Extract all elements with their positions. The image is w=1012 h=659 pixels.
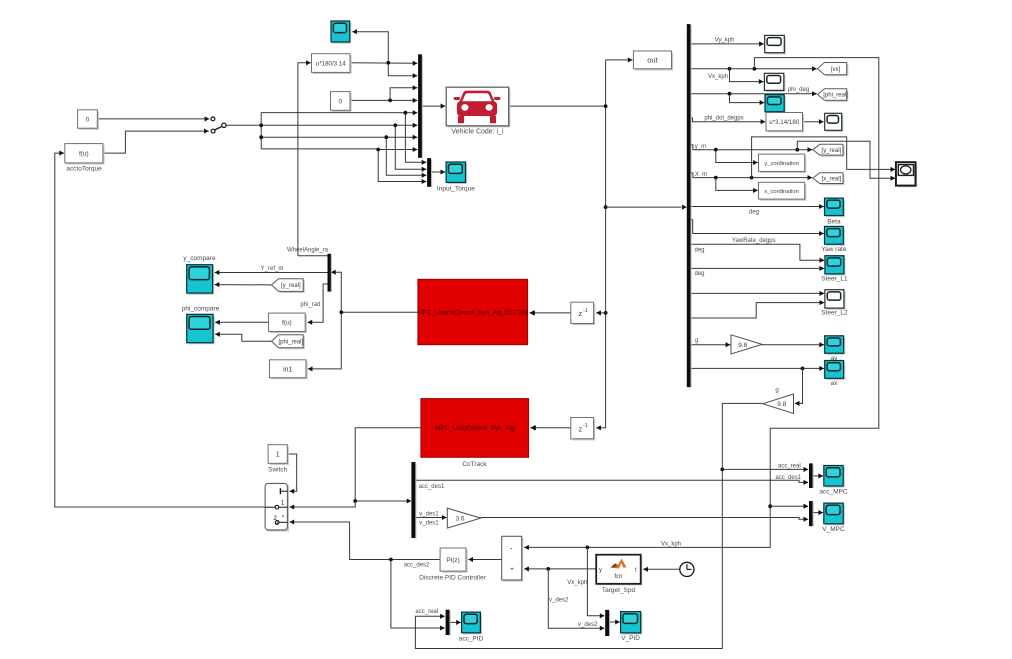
wire vx to scope (730, 69, 764, 84)
wire trunk to out block (606, 57, 633, 62)
wire wheelangle out top (298, 255, 328, 257)
svg-text:z: z (579, 309, 583, 318)
wire row3 (261, 135, 417, 140)
junction accdes2 j (389, 558, 393, 562)
wire phi to scope (730, 94, 765, 105)
svg-text:V_PID: V_PID (621, 635, 640, 642)
junction ym j1 (714, 148, 718, 152)
wire vx feedback long (590, 58, 879, 548)
subsystem MPC_LongControl_Dyn_Alg (CoTrack) (421, 399, 529, 458)
junction ax j (801, 367, 805, 371)
wire piz out (290, 519, 441, 559)
wire red1 junction down (308, 312, 342, 371)
mux V_PID (605, 610, 610, 637)
wire trunk vertical (596, 60, 605, 430)
wire deg beta (691, 204, 824, 209)
svg-text:v_des1: v_des1 (419, 521, 439, 527)
wire Yrefm line (215, 270, 328, 275)
scope V_MPC (824, 503, 845, 525)
svg-text:0: 0 (86, 116, 90, 123)
svg-text:Vy_kph: Vy_kph (715, 37, 735, 43)
goto tag [y_real] (813, 144, 845, 156)
wire gain3 out (481, 517, 809, 522)
svg-text:phi_deg: phi_deg (788, 87, 809, 93)
svg-text:deg: deg (695, 247, 705, 253)
svg-text:[y_real]: [y_real] (822, 148, 842, 154)
wire const1 to mps (287, 454, 296, 494)
goto tag [vx] (818, 63, 849, 77)
svg-text:x_cordination: x_cordination (764, 189, 798, 195)
wire red2 out (355, 428, 421, 501)
wire row3 to IT mux (386, 137, 426, 178)
junction trunk t1 (604, 104, 608, 108)
mux M1 (vehicle inputs) (418, 54, 423, 158)
wire fu2 out (215, 320, 268, 325)
wire steer2b (691, 300, 825, 318)
wire ax to gain2 (795, 368, 803, 406)
junction vmpc tap (768, 504, 772, 508)
svg-text:u*3.14/180: u*3.14/180 (769, 119, 799, 126)
wire sum out (468, 557, 501, 562)
svg-text:Y_ref_m: Y_ref_m (261, 266, 284, 272)
junction red1 j (339, 310, 343, 314)
svg-text:Vx_kph: Vx_kph (661, 541, 681, 547)
wire vdes1 (415, 515, 446, 520)
wire xm to xcord (716, 178, 758, 193)
junction d1 (404, 111, 408, 115)
svg-text:X_m: X_m (695, 172, 707, 178)
svg-text:WheelAngle_ra: WheelAngle_ra (287, 248, 329, 254)
wire wheelangle up to u180 (298, 60, 311, 255)
svg-text:0: 0 (338, 98, 342, 105)
clock (680, 562, 694, 576)
wire VMPC mux out (813, 510, 823, 515)
matlab function Target_Spd (596, 555, 642, 586)
manual switch (211, 117, 226, 133)
wire vxk down to vpid (587, 547, 604, 618)
wire ITmux out (431, 169, 445, 174)
svg-text:u*180/3.14: u*180/3.14 (316, 60, 346, 67)
scope phi_deg (765, 95, 786, 114)
scope ax (825, 361, 846, 380)
svg-text:Discrete PID Controller: Discrete PID Controller (419, 574, 486, 581)
svg-text:[phi_real]: [phi_real] (823, 93, 848, 99)
math block u*180/3.14 (312, 54, 352, 74)
wire yawrate (691, 220, 824, 236)
svg-text:acc_MPC: acc_MPC (819, 489, 847, 496)
junction d2 (393, 123, 397, 127)
svg-text:out: out (647, 56, 658, 65)
svg-text:phi_rad: phi_rad (300, 302, 320, 308)
wire const0 to manual switch (97, 116, 209, 121)
wire clock to target (643, 567, 680, 572)
svg-text:YawRate_degps: YawRate_degps (732, 238, 776, 244)
mux acc_MPC (809, 463, 814, 488)
wire Vx_kph line (691, 66, 817, 71)
wire deg steer1b (691, 266, 825, 271)
wire red2 to mps (290, 501, 356, 510)
wire row1 to IT mux (405, 113, 426, 165)
to workspace y_cordination (759, 154, 807, 173)
wire x_m line (691, 173, 813, 180)
wire ym to xy (797, 141, 895, 181)
svg-text:V_MPC: V_MPC (822, 526, 845, 533)
gain 9.8 (acc_real) (763, 394, 794, 414)
gain 3.6 (447, 508, 480, 528)
svg-text:MPC_LateralControl_Dyn_Alg_DLC: MPC_LateralControl_Dyn_Alg_DLC388 (417, 310, 528, 317)
wire gain2 out (415, 403, 762, 648)
wire z1 to red1 (529, 310, 570, 315)
wire accdes1 (415, 480, 808, 485)
svg-text:f(u): f(u) (79, 151, 89, 158)
discrete PID controller PI(z) (440, 548, 468, 573)
wire phidot (691, 118, 766, 124)
outport out (633, 51, 673, 70)
svg-text:z: z (579, 424, 583, 433)
wire red1 junction up (334, 272, 342, 312)
wire row2 to IT mux (395, 125, 426, 172)
svg-text:Vehicle Code: i_i: Vehicle Code: i_i (451, 129, 504, 136)
wire accMPC mux out (813, 473, 823, 478)
unit delay z1 (571, 302, 595, 325)
arrow into demux bus (682, 205, 687, 210)
wire target y out (524, 566, 596, 571)
scope acc_PID (462, 612, 482, 634)
junction vxk tap (586, 546, 590, 550)
to workspace x_cordination (759, 182, 807, 200)
goto tag [phi_real] (818, 89, 849, 102)
svg-text:Switch: Switch (268, 466, 288, 473)
wire accdes2 down (391, 560, 445, 631)
multiport switch (265, 483, 289, 531)
wire z2 to red2 (530, 425, 570, 430)
wire switch bus vertical (260, 113, 262, 149)
svg-text:3.6: 3.6 (455, 516, 464, 523)
svg-text:-1: -1 (583, 308, 588, 314)
wire phireal to phicompare (215, 332, 271, 341)
junction u180 junction (386, 61, 390, 65)
svg-text:deg: deg (695, 271, 705, 277)
scope V_PID (621, 612, 643, 635)
svg-text:acc_des2: acc_des2 (404, 563, 430, 569)
wire xm to xy (752, 137, 896, 178)
svg-text:[x_real]: [x_real] (822, 176, 842, 182)
wire mps out loop (55, 151, 265, 507)
svg-text:ax: ax (831, 380, 839, 387)
inport in1 (270, 360, 308, 380)
wire VPID mux out (610, 619, 620, 624)
scope y_compare (187, 265, 215, 295)
scope phi_dot (825, 113, 844, 132)
svg-text:[vx]: [vx] (831, 67, 841, 73)
svg-text:Steer_L2: Steer_L2 (821, 310, 848, 317)
gain 9.8 (ay) (731, 335, 762, 354)
unit delay z2 (571, 418, 595, 441)
svg-text:Input_Torque: Input_Torque (437, 185, 475, 192)
wire trunk to z1 (596, 310, 605, 315)
svg-text:y_m: y_m (695, 144, 706, 150)
subsystem MPC_LateralControl_Dyn_Alg_DLC388 (417, 279, 528, 344)
mux M2 (Input_Torque) (427, 158, 432, 187)
svg-text:+: + (510, 567, 514, 573)
arrow into demux CoTrack (407, 498, 412, 503)
wire accPID mux out (450, 620, 461, 625)
svg-text:v_des1: v_des1 (419, 512, 439, 518)
scope Yaw rate (825, 226, 845, 245)
svg-text:y_compare: y_compare (183, 255, 216, 262)
wire const0b tap up (390, 85, 417, 100)
wire const0b out (350, 98, 417, 103)
wire vdes2 down (548, 569, 604, 631)
wire gain1 out (762, 342, 824, 347)
mux V_MPC (809, 501, 814, 527)
svg-text:in1: in1 (283, 366, 292, 373)
wire fu out up to switch in2 (103, 129, 209, 154)
svg-text:Target_Spd: Target_Spd (602, 587, 636, 594)
junction c0b junction (388, 99, 392, 103)
wire u180 tap to scope (352, 29, 388, 63)
junction trunk t3 (604, 311, 608, 315)
wire u314 out (803, 119, 824, 124)
svg-text:g: g (695, 338, 698, 344)
svg-text:Yaw rate: Yaw rate (821, 246, 847, 253)
wire u180 out (350, 61, 417, 66)
wire ax line (691, 366, 824, 371)
junction sw out (259, 123, 263, 127)
demux WheelAngle (328, 254, 332, 292)
wire phirad line (308, 284, 328, 325)
arrow into demux WheelAngle (331, 270, 336, 275)
svg-text:[y_real]: [y_real] (281, 283, 301, 289)
scope Beta (825, 198, 845, 217)
from tag [y_real] (left) (272, 279, 305, 293)
scope Input_Torque (446, 162, 467, 184)
svg-text:deg: deg (749, 209, 759, 215)
svg-text:acc_real: acc_real (415, 609, 438, 615)
wire yreal to ycompare (215, 282, 272, 287)
junction xm j1 (714, 176, 718, 180)
wire accreal to mpc (722, 467, 808, 472)
junction vx j1 (728, 67, 732, 71)
car icon (454, 91, 501, 124)
wire u180 tap to mux2 (388, 63, 417, 78)
svg-text:acctoTorque: acctoTorque (66, 165, 102, 172)
sum block (502, 536, 524, 581)
svg-text:-1: -1 (583, 423, 588, 429)
wire row1 (261, 110, 417, 115)
mux acc_PID (446, 610, 451, 636)
scope phi_compare (187, 314, 215, 344)
XY graph block (896, 162, 917, 187)
scope Steer_L2 (825, 290, 846, 310)
demux CoTrack (411, 462, 416, 539)
junction vdes2 j (546, 567, 550, 571)
demux bus (vehicle states) (687, 24, 692, 388)
fcn block f(u) phi (269, 313, 307, 333)
svg-text:9.8: 9.8 (738, 342, 747, 349)
junction d4 (376, 148, 380, 152)
svg-text:phi_compare: phi_compare (182, 305, 220, 312)
svg-text:v_des2: v_des2 (578, 622, 598, 628)
from tag [phi_real] (left) (272, 335, 305, 350)
junction row3 tap (259, 135, 263, 139)
svg-text:v_des2: v_des2 (549, 597, 569, 603)
junction ym j2 (795, 148, 799, 152)
junction trunk t2 (604, 205, 608, 209)
wire mux1 out (422, 104, 445, 109)
wire y_m line (691, 145, 813, 153)
svg-text:acc_des1: acc_des1 (419, 484, 445, 490)
junction d3 (384, 135, 388, 139)
scope (steer angle) (331, 21, 351, 44)
constant 1 (Switch) (268, 445, 289, 465)
svg-text:Steer_L1: Steer_L1 (821, 276, 848, 283)
junction vx j2 (753, 67, 757, 71)
wire row2 (261, 123, 417, 128)
svg-text:acc_PID: acc_PID (459, 635, 484, 642)
svg-text:acc_des1: acc_des1 (775, 475, 801, 481)
svg-text:MPC_LongControl_Dyn_Alg: MPC_LongControl_Dyn_Alg (435, 425, 515, 432)
scope acc_MPC (824, 466, 845, 488)
subsystem Vehicle Code: i_i (446, 87, 510, 127)
junction xm j2 (750, 176, 754, 180)
constant 0 (upper) (331, 92, 352, 112)
svg-text:PI(z): PI(z) (446, 557, 459, 564)
svg-text:Vx_kph: Vx_kph (567, 580, 587, 586)
wire Vy_kph (691, 41, 764, 46)
junction phi j (728, 92, 732, 96)
svg-text:y: y (599, 567, 602, 573)
wire deg steer1a (691, 244, 825, 263)
wire vx feedback to sum (524, 545, 590, 550)
svg-text:y_cordination: y_cordination (764, 161, 798, 167)
wire g line (691, 342, 731, 347)
wire ym to ycord (716, 150, 758, 165)
svg-text:CoTrack: CoTrack (462, 461, 487, 468)
scope Vy_kph (765, 35, 786, 54)
scope Vx_kph (764, 73, 785, 92)
constant 0 (left) (78, 110, 99, 130)
goto tag [x_real] (813, 173, 845, 185)
svg-text:fcn: fcn (614, 574, 622, 580)
svg-text:phi_dot_degps: phi_dot_degps (704, 115, 743, 121)
math block u*3.14/180 (766, 113, 804, 133)
wire vehicle out (509, 105, 606, 107)
wire row4 (261, 147, 417, 152)
wire row4 to IT mux (378, 150, 426, 185)
wire red1 out (341, 311, 418, 313)
scope Steer_L1 (825, 256, 846, 276)
fcn block acctoTorque (65, 144, 105, 165)
junction red2 j (353, 499, 357, 503)
svg-text:f(u): f(u) (282, 320, 292, 327)
wire phi line (691, 91, 817, 96)
svg-text:[phi_real]: [phi_real] (279, 339, 304, 345)
wire switch output (226, 124, 261, 126)
svg-text:1: 1 (276, 452, 280, 459)
svg-text:9.8: 9.8 (777, 401, 786, 408)
svg-text:Beta: Beta (827, 218, 841, 225)
svg-text:acc_real: acc_real (778, 463, 801, 469)
wire trunk to demux (606, 206, 682, 208)
wire vmpc in1 (770, 504, 808, 509)
svg-text:g: g (775, 388, 778, 394)
junction accreal j (720, 468, 724, 472)
scope ay (825, 336, 846, 355)
wire steer2a (691, 291, 825, 296)
svg-text:Vx_kph: Vx_kph (708, 74, 728, 80)
